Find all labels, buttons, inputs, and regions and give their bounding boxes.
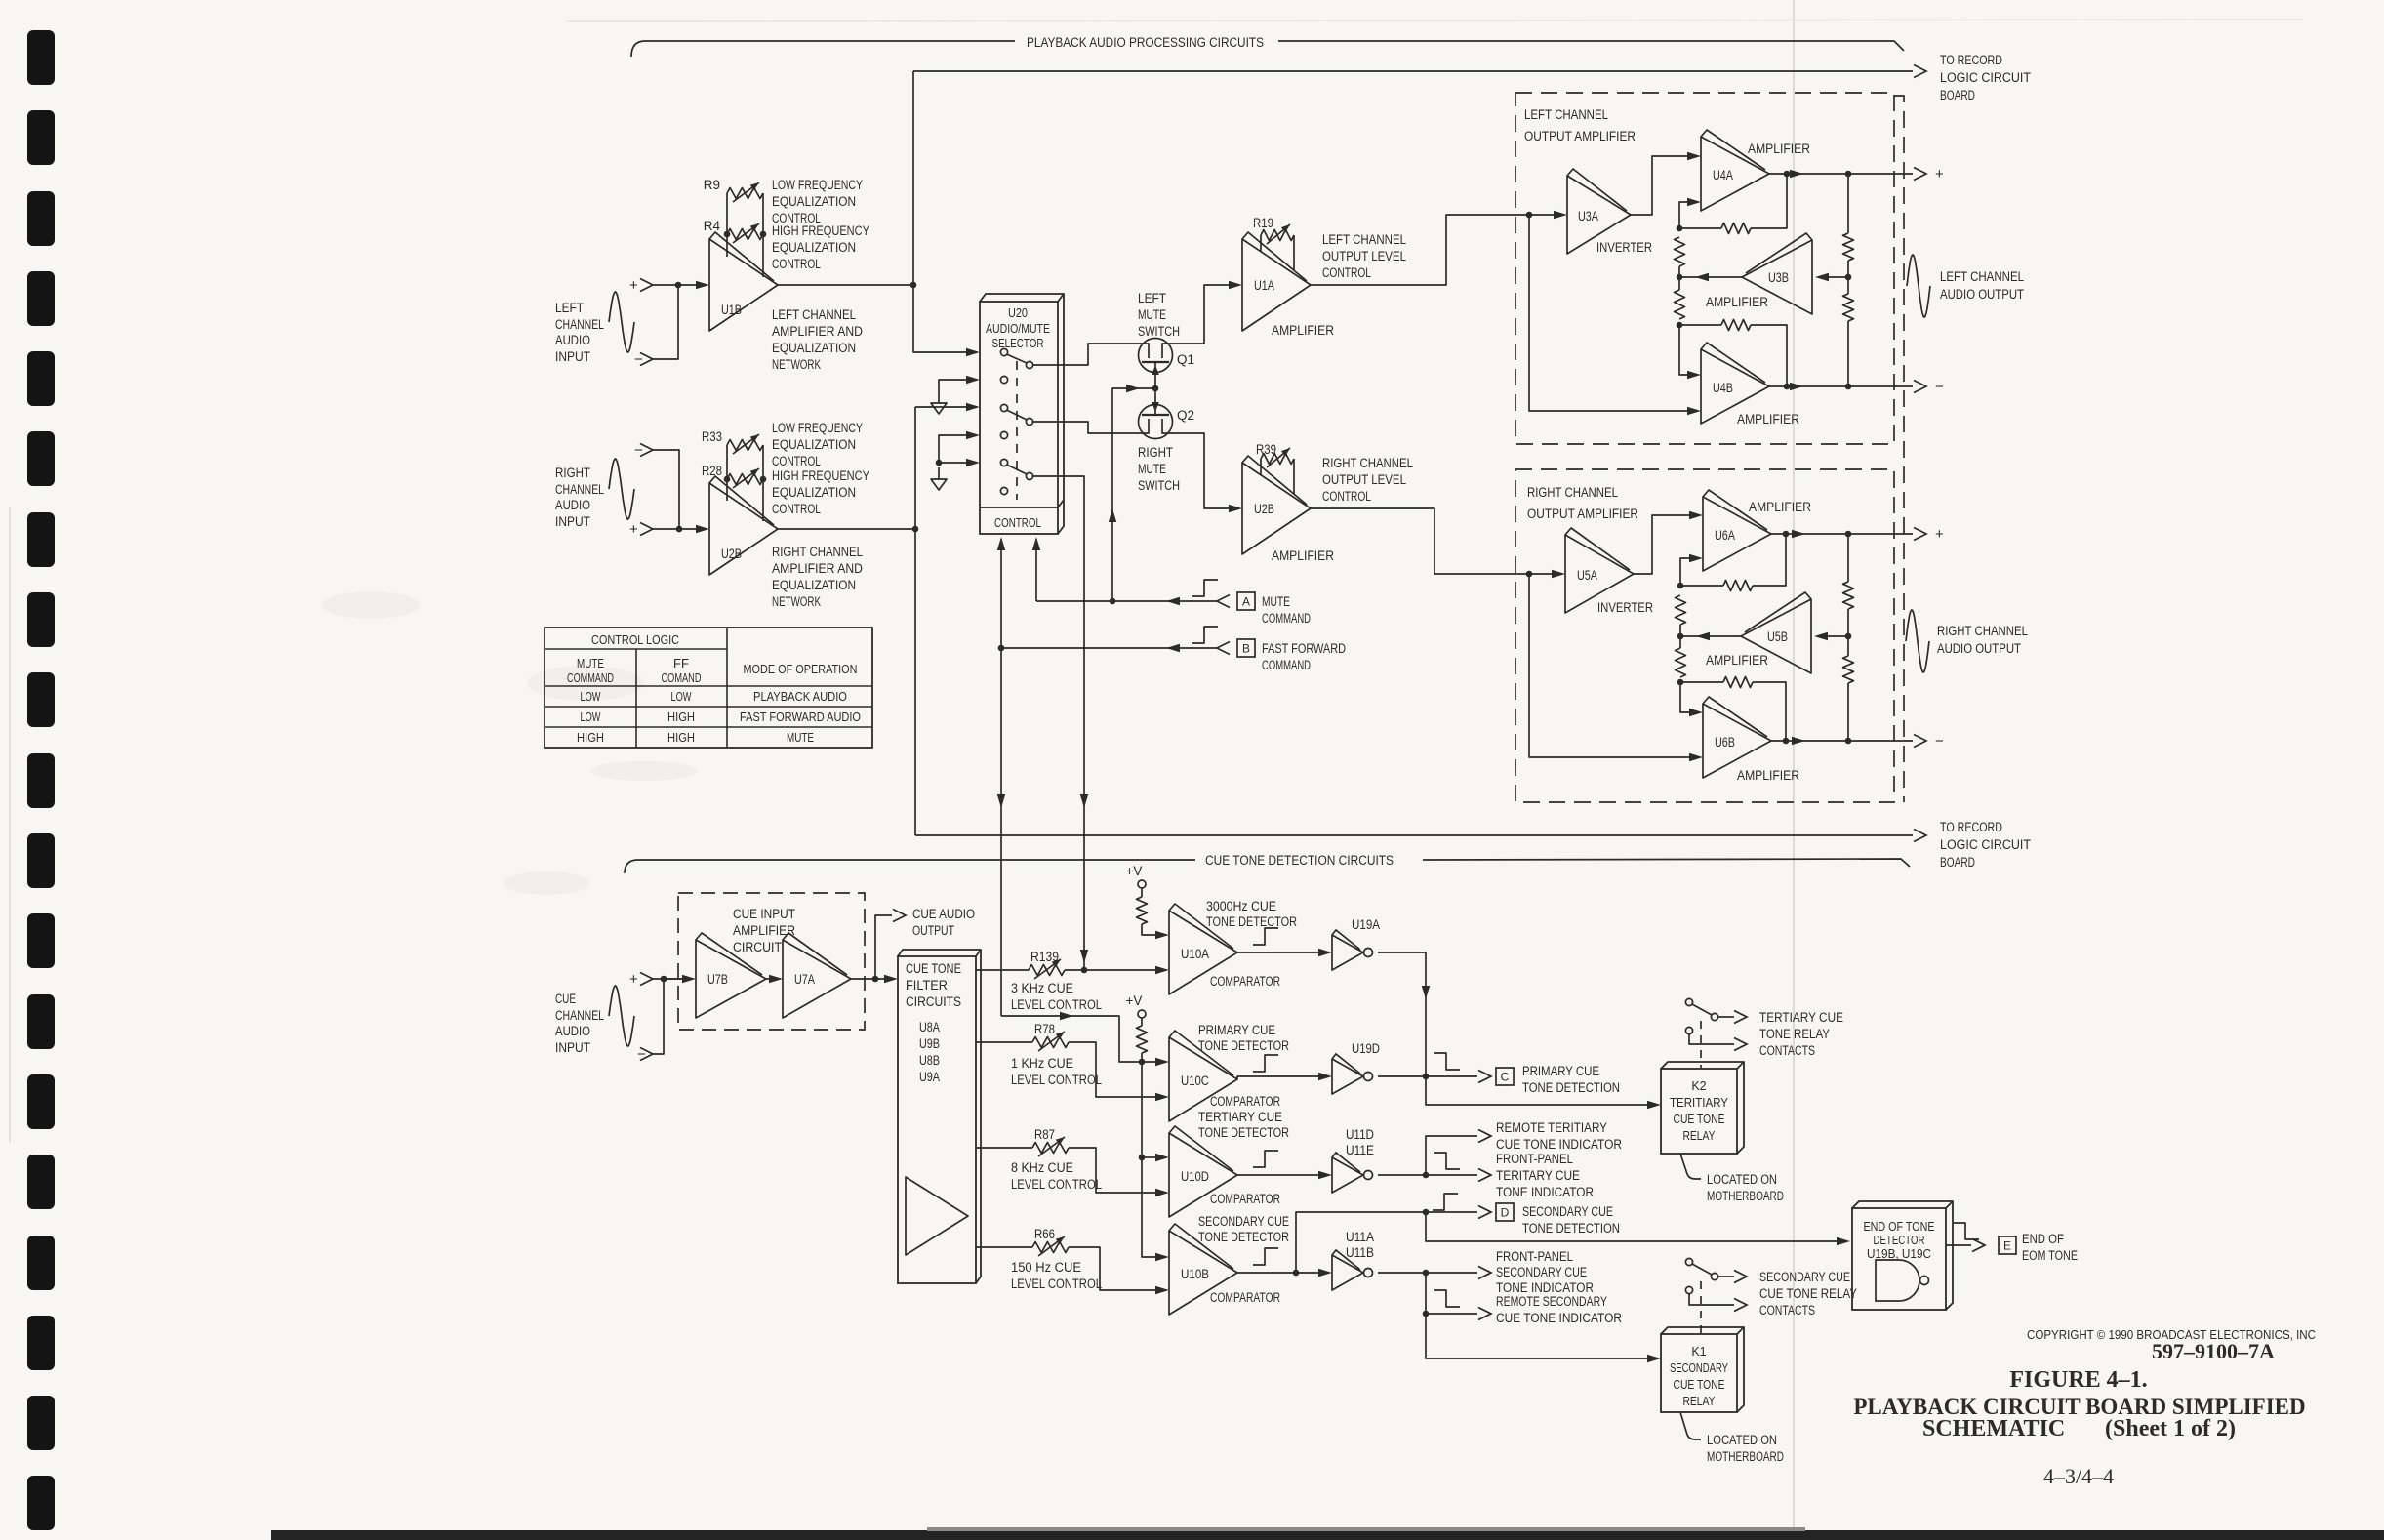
potentiometer R87 <box>1032 1143 1069 1154</box>
svg-text:LEVEL CONTROL: LEVEL CONTROL <box>1011 1177 1102 1192</box>
junction primary detect <box>1423 1074 1430 1080</box>
wire K1 contact 1 <box>1718 1276 1734 1277</box>
feedback loop wires R19 <box>1260 235 1262 252</box>
svg-text:U4B: U4B <box>1713 381 1733 395</box>
svg-text:LEVEL CONTROL: LEVEL CONTROL <box>1011 997 1102 1012</box>
svg-text:OUTPUT LEVEL: OUTPUT LEVEL <box>1322 249 1406 263</box>
leader K2 located <box>1680 1154 1701 1179</box>
wire K2 contact 2 <box>1689 1034 1734 1044</box>
wire U10A to U19A <box>1237 952 1319 953</box>
switch pole contact 6 <box>1000 487 1007 494</box>
svg-text:U10A: U10A <box>1181 947 1209 961</box>
svg-text:TO RECORD: TO RECORD <box>1940 53 2002 67</box>
svg-text:AMPLIFIER: AMPLIFIER <box>1737 768 1799 783</box>
wire U7A output <box>851 978 885 980</box>
junction right input <box>676 526 683 533</box>
svg-text:AMPLIFIER: AMPLIFIER <box>1272 548 1334 563</box>
svg-text:−: − <box>1935 379 1944 395</box>
wire mute to gates <box>1112 388 1155 601</box>
svg-text:FAST FORWARD AUDIO: FAST FORWARD AUDIO <box>740 709 861 724</box>
sine symbol left output <box>1907 255 1930 317</box>
junction U4B out <box>1784 384 1791 390</box>
bottom scan edge strip <box>271 1530 2384 1540</box>
op-amp U1B <box>709 239 778 331</box>
svg-text:U8B: U8B <box>919 1053 940 1068</box>
svg-text:LOW FREQUENCY: LOW FREQUENCY <box>772 421 863 435</box>
svg-text:BOARD: BOARD <box>1940 88 1975 102</box>
wire U20 input 5 <box>939 462 967 464</box>
svg-text:U9A: U9A <box>919 1070 940 1084</box>
flag connector C <box>1478 1071 1491 1083</box>
ground G1 <box>938 391 940 403</box>
switch arm 2 <box>1007 410 1028 420</box>
svg-text:CIRCUIT: CIRCUIT <box>733 940 782 954</box>
svg-text:CUE TONE: CUE TONE <box>1674 1378 1725 1392</box>
junction U1B output <box>910 282 917 289</box>
svg-text:MUTE: MUTE <box>1138 307 1166 322</box>
svg-text:AUDIO: AUDIO <box>555 498 590 512</box>
svg-text:AUDIO OUTPUT: AUDIO OUTPUT <box>1940 287 2024 302</box>
switch throw contact 3 <box>1026 472 1032 479</box>
sine symbol right input <box>609 459 634 519</box>
nand gate U19B U19C <box>1876 1260 1919 1301</box>
junction tertiary indicator <box>1423 1172 1430 1179</box>
svg-text:EQUALIZATION: EQUALIZATION <box>772 240 856 255</box>
potentiometer R4 <box>727 229 763 240</box>
svg-text:U6B: U6B <box>1715 735 1735 750</box>
svg-text:INVERTER: INVERTER <box>1597 600 1653 615</box>
wire into U7B <box>664 978 683 980</box>
junction plus out right <box>1845 531 1852 538</box>
svg-text:RIGHT CHANNEL: RIGHT CHANNEL <box>772 545 863 559</box>
wire U4B feedback tap <box>1751 325 1787 386</box>
wire control to comparators <box>1001 1016 1156 1062</box>
step glyph secondary detection <box>1433 1194 1458 1210</box>
svg-text:LEVEL CONTROL: LEVEL CONTROL <box>1011 1277 1102 1291</box>
svg-text:TERITARY CUE: TERITARY CUE <box>1496 1168 1580 1183</box>
comparator U10B <box>1169 1231 1237 1315</box>
junction ground feed <box>936 460 943 466</box>
svg-text:SECONDARY CUE: SECONDARY CUE <box>1496 1265 1587 1279</box>
wire filter to R66 <box>976 1246 1032 1248</box>
svg-text:+V: +V <box>1126 993 1143 1008</box>
svg-text:CONTROL: CONTROL <box>994 515 1041 530</box>
relay K1 linkage <box>1700 1281 1702 1333</box>
svg-text:CUE TONE INDICATOR: CUE TONE INDICATOR <box>1496 1311 1622 1325</box>
svg-text:COMMAND: COMMAND <box>1262 658 1311 672</box>
wire U6A output <box>1771 533 1848 535</box>
step glyph end of tone <box>1954 1223 1979 1239</box>
junction minus out left <box>1845 384 1852 390</box>
svg-text:U7B: U7B <box>707 972 728 987</box>
step glyph U10D out <box>1253 1151 1278 1167</box>
wire U6B feedback tap <box>1753 682 1786 741</box>
svg-text:U10B: U10B <box>1181 1267 1209 1281</box>
svg-text:(Sheet 1 of 2): (Sheet 1 of 2) <box>2105 1416 2236 1441</box>
svg-text:CUE TONE: CUE TONE <box>906 961 961 976</box>
svg-text:SWITCH: SWITCH <box>1138 478 1180 493</box>
junction R139 throw3 <box>1081 967 1088 974</box>
wire U1B output <box>778 284 913 286</box>
junction R28 left <box>724 476 731 483</box>
svg-text:SECONDARY CUE: SECONDARY CUE <box>1759 1270 1850 1284</box>
svg-text:LEFT: LEFT <box>1138 291 1166 305</box>
svg-text:COMAND: COMAND <box>662 670 702 685</box>
svg-text:SECONDARY: SECONDARY <box>1670 1361 1728 1375</box>
svg-text:LOW FREQUENCY: LOW FREQUENCY <box>772 178 863 192</box>
svg-text:EQUALIZATION: EQUALIZATION <box>772 194 856 209</box>
wire filter to R78 <box>976 1041 1032 1043</box>
svg-text:EQUALIZATION: EQUALIZATION <box>772 341 856 355</box>
relay K1 box <box>1661 1334 1737 1412</box>
outer dashed fold line <box>1894 96 1904 802</box>
op-amp U6A <box>1703 497 1771 571</box>
svg-text:PLAYBACK AUDIO: PLAYBACK AUDIO <box>753 689 847 704</box>
wire node C2 to resistor <box>1680 681 1723 683</box>
svg-text:DETECTOR: DETECTOR <box>1874 1234 1925 1247</box>
svg-text:CUE: CUE <box>555 992 576 1006</box>
page seam line (scan artifact) <box>1793 0 1795 1528</box>
svg-text:EQUALIZATION: EQUALIZATION <box>772 437 856 452</box>
svg-text:Q1: Q1 <box>1177 352 1194 367</box>
wire U3A out to U4A <box>1631 156 1688 215</box>
wire into U1B <box>696 281 709 289</box>
svg-text:RELAY: RELAY <box>1683 1129 1717 1143</box>
wire filter to R87 <box>976 1147 1032 1149</box>
svg-text:R4: R4 <box>704 219 721 233</box>
svg-text:TERITIARY: TERITIARY <box>1670 1096 1729 1110</box>
svg-text:LOCATED ON: LOCATED ON <box>1707 1433 1777 1447</box>
svg-text:+: + <box>1935 526 1944 543</box>
svg-text:CUE TONE INDICATOR: CUE TONE INDICATOR <box>1496 1137 1622 1152</box>
wire U4B output <box>1769 385 1848 387</box>
svg-text:AMPLIFIER: AMPLIFIER <box>1748 142 1810 156</box>
junction U6B out <box>1783 738 1790 745</box>
left margin crease (scan artifact) <box>9 507 11 1142</box>
flag connector B <box>1217 642 1230 655</box>
table CONTROL LOGIC <box>545 628 872 748</box>
wire fast forward command line <box>1001 647 1217 649</box>
switch pole contact 1 <box>1000 348 1007 355</box>
svg-text:CONTROL: CONTROL <box>772 502 821 516</box>
wire left - output <box>1848 385 1913 387</box>
wire left + output <box>1848 173 1913 175</box>
resistor chain lower (left) <box>1675 290 1685 319</box>
junction node A2 <box>1677 583 1684 589</box>
wire right - output <box>1848 740 1913 742</box>
wire to record logic (bottom) <box>915 834 1913 836</box>
wire K1 contact 2 <box>1689 1294 1734 1305</box>
junction node A <box>1677 225 1683 232</box>
wire chain mid 2 <box>1679 625 1681 648</box>
svg-text:R139: R139 <box>1030 950 1059 964</box>
junction U3A input <box>1526 212 1533 219</box>
junction plus out left <box>1845 171 1852 178</box>
svg-text:CUE TONE DETECTION CIRCUITS: CUE TONE DETECTION CIRCUITS <box>1205 853 1394 868</box>
wire U3A node down to U4B <box>1529 215 1688 411</box>
svg-text:+: + <box>629 971 638 988</box>
wire U7B to U7A <box>766 978 770 980</box>
svg-text:+: + <box>629 277 638 294</box>
binder hole strip (left page edge) <box>27 30 55 1530</box>
potentiometer R78 <box>1032 1037 1069 1048</box>
wire secondary detection row <box>1296 1212 1477 1273</box>
junction left input <box>675 282 682 289</box>
step glyph U10A out <box>1253 928 1278 945</box>
junction cue input <box>661 976 667 983</box>
wire U19A output <box>1378 952 1426 1076</box>
svg-text:MUTE: MUTE <box>1138 462 1166 476</box>
dashed box LEFT CHANNEL OUTPUT AMPLIFIER <box>1515 93 1894 444</box>
wire Q1 to U1A <box>1172 285 1230 344</box>
svg-text:U2B: U2B <box>1254 502 1274 516</box>
svg-text:U19B, U19C: U19B, U19C <box>1867 1247 1931 1261</box>
svg-text:D: D <box>1501 1206 1510 1220</box>
wire into U2B <box>696 525 709 533</box>
svg-text:AMPLIFIER AND: AMPLIFIER AND <box>772 561 863 576</box>
inverter U11A U11B <box>1332 1255 1363 1290</box>
svg-text:PRIMARY CUE: PRIMARY CUE <box>1522 1064 1599 1078</box>
junction FF line <box>998 645 1005 652</box>
svg-text:U3B: U3B <box>1768 270 1789 285</box>
relay contact K2 pole 2 <box>1685 1027 1692 1033</box>
svg-text:LOGIC CIRCUIT: LOGIC CIRCUIT <box>1940 837 2031 852</box>
svg-text:CONTROL LOGIC: CONTROL LOGIC <box>591 632 679 647</box>
op-amp U7A <box>783 940 851 1018</box>
svg-text:U11B: U11B <box>1346 1245 1374 1260</box>
svg-text:LEFT CHANNEL: LEFT CHANNEL <box>1940 269 2024 284</box>
wire node A2 to U6A input <box>1680 558 1690 586</box>
dashed box CUE INPUT AMPLIFIER CIRCUIT <box>678 893 865 1030</box>
junction U5A input <box>1526 571 1533 578</box>
svg-text:RIGHT: RIGHT <box>555 466 590 480</box>
wire to K1 relay <box>1426 1314 1648 1358</box>
svg-text:REMOTE SECONDARY: REMOTE SECONDARY <box>1496 1294 1607 1309</box>
potentiometer R28 <box>727 474 763 485</box>
svg-text:1 KHz CUE: 1 KHz CUE <box>1011 1056 1073 1071</box>
wire to record logic (top) <box>913 70 1913 72</box>
svg-text:BOARD: BOARD <box>1940 855 1975 870</box>
svg-text:SWITCH: SWITCH <box>1138 324 1180 339</box>
svg-text:CUE TONE RELAY: CUE TONE RELAY <box>1759 1286 1857 1301</box>
wire left audio bus vertical <box>913 71 967 352</box>
op-amp U3A <box>1567 176 1631 254</box>
filter buffer triangle <box>906 1177 968 1255</box>
wire R87 to U10D <box>1069 1148 1156 1193</box>
wire U5A out to U6A <box>1634 515 1690 574</box>
comparator U10D <box>1169 1133 1237 1217</box>
wire U1A output to U3A <box>1311 215 1555 285</box>
op-amp U5A <box>1565 535 1634 613</box>
svg-text:AMPLIFIER: AMPLIFIER <box>1706 653 1768 668</box>
svg-text:C: C <box>1501 1071 1510 1084</box>
potentiometer R9 <box>727 188 763 199</box>
op-amp U4B <box>1701 349 1769 424</box>
inverter U11D U11E <box>1332 1157 1363 1193</box>
step glyph primary detection <box>1434 1053 1460 1070</box>
box CUE TONE FILTER CIRCUITS <box>898 956 976 1283</box>
sine symbol left input <box>609 292 634 352</box>
junction R28 right <box>760 476 767 483</box>
svg-text:HIGH: HIGH <box>577 730 604 745</box>
wire node C to U4B input <box>1679 325 1688 375</box>
svg-text:150 Hz CUE: 150 Hz CUE <box>1011 1260 1081 1275</box>
wire R66 to U10B <box>1069 1247 1156 1290</box>
wire U5B input <box>1824 635 1848 637</box>
svg-text:TO RECORD: TO RECORD <box>1940 820 2002 834</box>
wire chain mid <box>1678 266 1680 290</box>
dashed box RIGHT CHANNEL OUTPUT AMPLIFIER <box>1515 469 1894 802</box>
svg-text:CONTROL: CONTROL <box>772 257 821 271</box>
ground G2 <box>938 467 940 479</box>
junction node C2 <box>1677 679 1684 686</box>
op-amp U7B <box>696 940 766 1018</box>
wire right audio bus vertical <box>914 407 916 835</box>
svg-text:FILTER: FILTER <box>906 978 948 993</box>
switch pole contact 4 <box>1000 431 1007 438</box>
svg-text:INPUT: INPUT <box>555 514 590 529</box>
resistor chain lower (right) <box>1676 648 1686 677</box>
svg-text:CONTROL: CONTROL <box>1322 265 1371 280</box>
potentiometer R139 <box>1029 965 1065 976</box>
relay contact K2 arm <box>1692 1004 1712 1015</box>
section bracket CUE TONE DETECTION CIRCUITS <box>625 860 1195 873</box>
svg-text:AMPLIFIER: AMPLIFIER <box>1749 500 1811 514</box>
svg-text:SECONDARY CUE: SECONDARY CUE <box>1198 1214 1289 1229</box>
svg-text:U1B: U1B <box>721 303 742 317</box>
wire remote teritary <box>1426 1136 1477 1175</box>
wire remote secondary <box>1426 1273 1477 1314</box>
junction chain U10D <box>1139 1155 1146 1161</box>
svg-text:COMPARATOR: COMPARATOR <box>1210 1192 1280 1206</box>
step glyph U10C out <box>1253 1055 1278 1072</box>
svg-text:K2: K2 <box>1691 1079 1706 1093</box>
svg-text:COMPARATOR: COMPARATOR <box>1210 1094 1280 1109</box>
svg-text:U7A: U7A <box>794 972 815 987</box>
svg-text:TERTIARY CUE: TERTIARY CUE <box>1198 1110 1282 1124</box>
relay contact K1 throw <box>1711 1273 1717 1279</box>
wire CONTROL input 2 (mute) <box>1035 540 1037 601</box>
inverter U19D <box>1332 1059 1363 1094</box>
wire node C2 to U6B input <box>1680 682 1690 712</box>
junction cue audio output <box>872 976 879 983</box>
svg-text:LOW: LOW <box>581 709 602 724</box>
svg-text:TONE DETECTION: TONE DETECTION <box>1522 1221 1620 1236</box>
svg-text:U11A: U11A <box>1346 1230 1374 1244</box>
svg-text:3 KHz CUE: 3 KHz CUE <box>1011 981 1073 995</box>
svg-text:MOTHERBOARD: MOTHERBOARD <box>1707 1189 1784 1203</box>
svg-text:OUTPUT AMPLIFIER: OUTPUT AMPLIFIER <box>1527 507 1638 521</box>
svg-text:CHANNEL: CHANNEL <box>555 482 604 497</box>
svg-text:FF: FF <box>673 656 689 670</box>
svg-text:LEFT CHANNEL: LEFT CHANNEL <box>1322 232 1406 247</box>
svg-text:NETWORK: NETWORK <box>772 594 821 609</box>
svg-text:+: + <box>1935 166 1944 182</box>
potentiometer R39 <box>1261 454 1294 465</box>
wire bus B to U20 input 3 <box>915 406 967 408</box>
svg-text:HIGH: HIGH <box>667 709 695 724</box>
svg-text:EQUALIZATION: EQUALIZATION <box>772 578 856 592</box>
svg-text:E: E <box>2003 1239 2011 1253</box>
inverter U19A <box>1332 935 1363 970</box>
junction U2B output <box>912 526 919 533</box>
box END OF TONE DETECTOR <box>1852 1208 1946 1310</box>
junction R4 right <box>760 231 767 238</box>
wire throw2 to Q2 <box>1032 422 1138 433</box>
wire node C to resistor <box>1679 324 1721 326</box>
svg-text:U10D: U10D <box>1181 1169 1209 1184</box>
wire U3B output <box>1679 276 1742 278</box>
step glyph front-panel tertiary <box>1434 1153 1460 1169</box>
resistor U6B feedback <box>1723 677 1753 688</box>
selector U20 box <box>980 302 1058 534</box>
switch arm 3 <box>1007 465 1028 474</box>
junction +V2 on U10C input <box>1139 1059 1146 1066</box>
svg-text:TONE DETECTOR: TONE DETECTOR <box>1198 1230 1289 1244</box>
svg-text:PLAYBACK AUDIO PROCESSING CIRC: PLAYBACK AUDIO PROCESSING CIRCUITS <box>1027 35 1264 50</box>
svg-text:EQUALIZATION: EQUALIZATION <box>772 485 856 500</box>
svg-text:SCHEMATIC: SCHEMATIC <box>1922 1416 2065 1441</box>
junction R4 left <box>724 231 731 238</box>
wire CONTROL input 1 (FF) <box>1000 540 1002 1016</box>
wire U2B output <box>778 528 915 530</box>
svg-text:EOM TONE: EOM TONE <box>2022 1248 2078 1263</box>
comparator U10A <box>1169 911 1237 994</box>
svg-text:B: B <box>1242 642 1250 656</box>
wire node A to resistor <box>1679 227 1721 229</box>
resistor chain upper (left) <box>1675 237 1685 266</box>
svg-text:TONE DETECTOR: TONE DETECTOR <box>1198 1125 1289 1140</box>
feedback loop wires U1B <box>726 193 728 257</box>
relay K2 box <box>1661 1069 1737 1154</box>
wire throw3 down <box>1032 476 1084 971</box>
op-amp U3B <box>1742 240 1812 314</box>
op-amp U5B <box>1741 599 1811 673</box>
svg-text:LOW: LOW <box>671 689 693 704</box>
svg-text:PLAYBACK CIRCUIT BOARD SIMPLIF: PLAYBACK CIRCUIT BOARD SIMPLIFIED <box>1853 1395 2305 1419</box>
svg-text:COMMAND: COMMAND <box>567 670 614 685</box>
junction minus out right <box>1845 738 1852 745</box>
right divider resistor lower (right) <box>1847 636 1849 656</box>
svg-text:R78: R78 <box>1034 1022 1055 1036</box>
wire R78 to U10C <box>1069 1042 1156 1097</box>
op-amp U1A <box>1242 239 1311 331</box>
junction right divider mid (right) <box>1845 633 1852 640</box>
svg-text:TERTIARY CUE: TERTIARY CUE <box>1759 1010 1843 1025</box>
wire U6A feedback tap <box>1753 534 1786 586</box>
junction node B2 <box>1677 633 1684 640</box>
svg-text:FAST FORWARD: FAST FORWARD <box>1262 641 1346 656</box>
svg-text:RIGHT CHANNEL: RIGHT CHANNEL <box>1937 624 2028 638</box>
switch throw contact 2 <box>1026 418 1032 425</box>
right divider resistor upper (right) <box>1847 534 1849 582</box>
wire throw1 to Q1 <box>1032 344 1138 365</box>
leader K1 located <box>1680 1412 1701 1439</box>
scan smudges <box>322 591 698 895</box>
svg-text:TONE INDICATOR: TONE INDICATOR <box>1496 1185 1594 1199</box>
relay contact K2 throw <box>1711 1013 1717 1020</box>
svg-text:LOCATED ON: LOCATED ON <box>1707 1172 1777 1187</box>
svg-text:597–9100–7A: 597–9100–7A <box>2152 1339 2275 1363</box>
svg-text:HIGH: HIGH <box>667 730 695 745</box>
wire Q2 to U2B amp <box>1172 433 1230 508</box>
svg-text:3000Hz CUE: 3000Hz CUE <box>1206 899 1276 913</box>
svg-text:CONTROL: CONTROL <box>772 454 821 468</box>
svg-text:HIGH FREQUENCY: HIGH FREQUENCY <box>772 223 869 238</box>
svg-text:FRONT-PANEL: FRONT-PANEL <box>1496 1249 1573 1264</box>
transistor Q1 <box>1139 339 1173 373</box>
switch throw contact 1 <box>1026 361 1032 368</box>
